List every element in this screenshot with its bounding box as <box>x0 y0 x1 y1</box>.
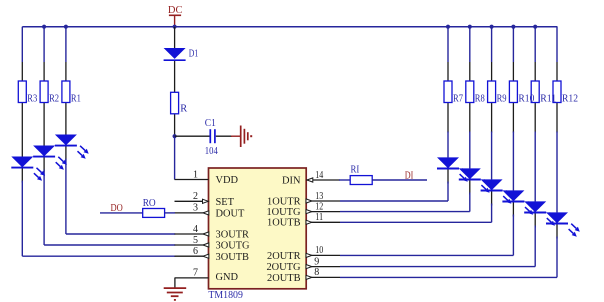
U1 pin 12 (1OUTG) <box>266 201 340 218</box>
resistor R10 label <box>518 94 534 105</box>
svg-text:11: 11 <box>315 212 323 223</box>
U1 pin 13 (1OUTR) <box>267 191 340 208</box>
LED D-R3 (white LED) <box>11 157 45 181</box>
capacitor C1 <box>205 118 218 157</box>
wire RI to DI <box>372 179 427 181</box>
resistor R <box>171 92 188 114</box>
wire pin 14 to RI <box>339 179 350 181</box>
resistor R9 body <box>488 81 496 103</box>
IC U1 TM1809 body <box>208 168 306 301</box>
resistor R8 label <box>475 94 485 105</box>
svg-text:2OUTR: 2OUTR <box>267 251 301 262</box>
U1 pin 4 (3OUTR) <box>175 224 250 241</box>
svg-text:3OUTG: 3OUTG <box>216 241 251 252</box>
junction dot DC <box>173 25 177 29</box>
svg-text:10: 10 <box>315 245 323 256</box>
svg-text:9: 9 <box>314 256 319 267</box>
svg-text:3OUTR: 3OUTR <box>216 230 250 241</box>
resistor R1 body <box>62 81 70 103</box>
svg-text:5: 5 <box>193 235 198 246</box>
svg-text:6: 6 <box>193 246 198 257</box>
resistor R10 body <box>509 81 517 103</box>
svg-text:8: 8 <box>314 267 319 278</box>
resistor R7 body <box>444 81 452 103</box>
U1 pin 1 (VDD) <box>175 169 239 186</box>
svg-text:13: 13 <box>315 191 323 202</box>
U1 pin 7 (GND) <box>175 268 239 283</box>
svg-text:3: 3 <box>193 203 198 214</box>
resistor R9 label <box>497 94 507 105</box>
U1 pin 8 (2OUTB) <box>267 267 340 284</box>
U1 pin 5 (3OUTG) <box>175 235 251 252</box>
U1 pin 2 (SET) <box>175 191 235 208</box>
svg-text:DOUT: DOUT <box>216 209 246 220</box>
power port DC <box>168 5 183 27</box>
svg-text:R11: R11 <box>540 94 556 105</box>
wire R9 column (rail to resistor, through LED, down to pin 11 row) <box>340 27 492 223</box>
wire R7 column (rail to resistor, through LED, down to pin 13 row) <box>340 27 448 201</box>
net label DO <box>110 203 123 214</box>
wire R3 column (rail to resistor, through LED, down to pin 6 row) <box>22 27 175 257</box>
svg-text:R12: R12 <box>562 94 578 105</box>
diode D1 <box>164 48 199 60</box>
resistor R7 label <box>453 94 463 105</box>
svg-text:1OUTB: 1OUTB <box>267 218 301 229</box>
svg-text:GND: GND <box>216 272 239 283</box>
svg-text:SET: SET <box>216 197 235 208</box>
LED D-R1 (white LED) <box>55 135 89 159</box>
junction dot R2 column <box>42 25 46 29</box>
wire DC column (rail to D1, D1 to R, R to junction, junction down to pin 1 row) <box>174 27 176 180</box>
resistor R1 label <box>71 94 81 105</box>
svg-text:R3: R3 <box>27 94 37 105</box>
resistor R11 body <box>531 81 539 103</box>
U1 pin 6 (3OUTB) <box>175 246 250 263</box>
ground GND (earth) <box>164 288 187 301</box>
wire junction to C1 <box>175 135 210 137</box>
wire R10 column (rail to resistor, through LED, down to pin 10 row) <box>340 27 513 256</box>
svg-text:2OUTB: 2OUTB <box>267 273 301 284</box>
LED D-R2 (white LED) <box>33 146 67 170</box>
wire DO to RO <box>100 212 143 214</box>
junction dot C1 node <box>173 134 177 138</box>
resistor R2 body <box>40 81 48 103</box>
junction dot R7 column <box>446 25 450 29</box>
resistor R2 label <box>49 94 59 105</box>
svg-text:4: 4 <box>193 224 198 235</box>
svg-text:R: R <box>180 103 187 114</box>
resistor R8 body <box>466 81 474 103</box>
wire R11 column (rail to resistor, through LED, down to pin 9 row) <box>340 27 535 267</box>
resistor R11 label <box>540 94 556 105</box>
svg-text:2: 2 <box>193 191 198 202</box>
LED D-R11 (white LED) <box>524 201 558 225</box>
svg-text:R9: R9 <box>497 94 507 105</box>
junction dot R11 column <box>533 25 537 29</box>
svg-text:R2: R2 <box>49 94 59 105</box>
resistor R3 body <box>18 81 26 103</box>
U1 pin 10 (2OUTR) <box>267 245 340 262</box>
LED D-R9 (white LED) <box>481 179 515 203</box>
svg-text:RO: RO <box>143 198 156 209</box>
LED D-R12 (white LED) <box>546 212 580 236</box>
U1 pin 11 (1OUTB) <box>267 212 340 229</box>
svg-text:2OUTG: 2OUTG <box>266 262 301 273</box>
svg-text:R1: R1 <box>71 94 81 105</box>
U1 pin 14 (DIN) <box>282 170 340 187</box>
resistor R12 label <box>562 94 578 105</box>
wire RO to pin 3 <box>165 212 175 214</box>
wire top power rail <box>22 26 557 28</box>
svg-text:1: 1 <box>193 169 198 180</box>
svg-text:DIN: DIN <box>282 175 301 186</box>
junction dot R1 column <box>64 25 68 29</box>
svg-text:1OUTG: 1OUTG <box>266 207 301 218</box>
resistor R12 body <box>553 81 561 103</box>
wire pin 7 to ground <box>174 278 176 288</box>
LED D-R7 (white LED) <box>437 157 471 181</box>
LED D-R10 (white LED) <box>502 190 536 214</box>
svg-text:C1: C1 <box>205 118 216 129</box>
wire C1 to power ground <box>216 135 240 137</box>
svg-text:DI: DI <box>405 171 414 182</box>
power ground at C1 <box>241 126 253 148</box>
junction dot R8 column <box>468 25 472 29</box>
junction dot R9 column <box>490 25 494 29</box>
svg-text:1OUTR: 1OUTR <box>267 196 301 207</box>
svg-text:R7: R7 <box>453 94 463 105</box>
resistor RO <box>143 198 165 217</box>
U1 pin 3 (DOUT) <box>175 203 246 220</box>
svg-text:104: 104 <box>205 146 218 157</box>
resistor RI <box>350 165 372 185</box>
LED D-R8 (white LED) <box>459 168 493 192</box>
svg-text:TM1809: TM1809 <box>208 290 243 301</box>
wire R1 column (rail to resistor, through LED, down to pin 4 row) <box>66 27 175 234</box>
svg-text:VDD: VDD <box>216 175 239 186</box>
svg-text:D1: D1 <box>189 49 199 60</box>
wire R12 column (rail to resistor, through LED, down to pin 8 row) <box>340 27 557 278</box>
svg-text:7: 7 <box>193 268 198 279</box>
resistor R3 label <box>27 94 37 105</box>
svg-text:R10: R10 <box>518 94 534 105</box>
svg-text:3OUTB: 3OUTB <box>216 252 250 263</box>
wire R8 column (rail to resistor, through LED, down to pin 12 row) <box>340 27 470 212</box>
svg-text:14: 14 <box>315 170 323 181</box>
U1 pin 9 (2OUTG) <box>266 256 340 273</box>
junction dot R10 column <box>511 25 515 29</box>
wire R2 column (rail to resistor, through LED, down to pin 5 row) <box>44 27 175 245</box>
svg-text:R8: R8 <box>475 94 485 105</box>
svg-text:12: 12 <box>315 201 323 212</box>
net label DI <box>405 171 414 182</box>
svg-text:RI: RI <box>351 165 360 176</box>
